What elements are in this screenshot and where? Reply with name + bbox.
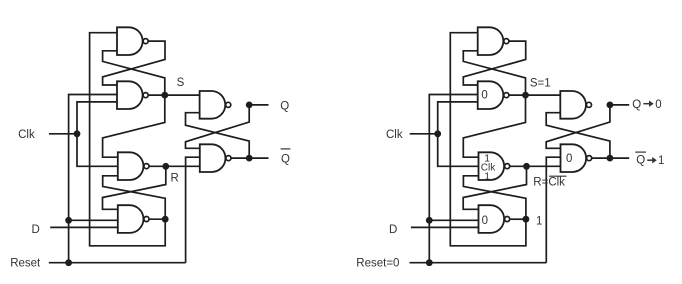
NAND gate U11 (right circuit) [560, 91, 591, 119]
wire Q-bar feedback to G5 bottom input (right circuit) [546, 113, 610, 158]
junction Q node (left circuit) [246, 101, 253, 108]
arrow in Q goes to 0 [643, 101, 653, 107]
wire G3 output node R to G6 input (left circuit) [149, 165, 199, 167]
svg-text:Q: Q [636, 155, 645, 167]
wire node R to G4 top input (left circuit) [103, 166, 166, 209]
junction Reset to G4 branch (left circuit) [65, 217, 72, 224]
wire G4 output feedback to G1 top input (right circuit) [450, 33, 526, 246]
wire node S to G3 top input (right circuit) [463, 95, 525, 157]
NAND gate U10 (right circuit) [479, 205, 510, 233]
NAND gate U3 (left circuit) [118, 152, 149, 180]
junction Reset to G4 branch (right circuit) [426, 217, 433, 224]
junction node S (left circuit) [161, 92, 168, 99]
wire Reset branch to G4 middle input (right circuit) [429, 219, 478, 221]
svg-text:0: 0 [481, 89, 487, 101]
NAND gate U1 (left circuit) [117, 27, 148, 55]
svg-text:1: 1 [658, 155, 664, 167]
wire G4 output feedback to G1 top input (left circuit) [90, 33, 166, 246]
svg-text:D: D [389, 224, 397, 236]
junction node S (right circuit) [522, 92, 529, 99]
wire node S feedback to G1 bottom input (left circuit) [103, 51, 165, 95]
arrow in Q-bar goes to 1 [647, 157, 657, 163]
junction Clk tap (right circuit) [434, 130, 441, 137]
junction Clk tap (left circuit) [74, 130, 81, 137]
wire Clk input lead (left circuit) [49, 133, 77, 135]
wire D input to G4 (left circuit) [50, 226, 118, 228]
junction Q-bar node (left circuit) [246, 155, 253, 162]
wire Reset riser to G6 middle input (left circuit) [186, 157, 200, 263]
svg-text:0: 0 [655, 99, 661, 111]
svg-text:R: R [171, 173, 179, 185]
NAND gate U9 (right circuit) [479, 152, 510, 180]
NAND gate U4 (left circuit) [118, 205, 149, 233]
wire Clk to G2 and G3 inputs (right circuit) [438, 102, 479, 166]
wire Q-bar output lead (left circuit) [231, 157, 268, 159]
wire node S to G3 top input (left circuit) [103, 95, 165, 157]
svg-text:0: 0 [566, 153, 572, 165]
wire Q feedback to G6 top input (right circuit) [546, 105, 610, 148]
svg-text:Reset=0: Reset=0 [356, 257, 399, 269]
wire Reset riser to G6 middle input (right circuit) [546, 157, 560, 263]
svg-text:Clk: Clk [386, 129, 403, 141]
overbar on Clk in R=Clk label [549, 175, 567, 177]
wire Q-bar output lead (right circuit) [592, 157, 629, 159]
svg-text:D: D [32, 224, 40, 236]
junction Q node (right circuit) [607, 101, 614, 108]
wire G2 output node S to G5 input (left circuit) [149, 94, 200, 96]
NAND gate U2 (left circuit) [117, 81, 148, 109]
wire G1 output to G2 top input (left circuit) [103, 41, 165, 85]
junction G4 output (left circuit) [162, 216, 169, 223]
svg-text:Q: Q [281, 153, 290, 165]
svg-text:R=Clk: R=Clk [533, 177, 565, 189]
wire D input to G4 (right circuit) [411, 226, 479, 228]
junction node R (left circuit) [162, 163, 169, 170]
NAND gate U7 (right circuit) [478, 27, 509, 55]
junction Reset tap (right circuit) [426, 259, 433, 266]
NAND gate U6 (left circuit) [200, 144, 231, 172]
NAND gate U8 (right circuit) [478, 81, 509, 109]
wire G4 output feedback to G3 bottom input (left circuit) [103, 176, 166, 219]
wire G4 output stub (right circuit) [510, 218, 526, 220]
wire node R to G4 top input (right circuit) [463, 166, 526, 209]
svg-text:S: S [177, 77, 185, 89]
svg-text:1: 1 [536, 215, 542, 227]
wire Reset horizontal run (right circuit) [410, 262, 547, 264]
NAND gate U12 (right circuit) [561, 144, 592, 172]
junction Reset tap (left circuit) [65, 259, 72, 266]
junction Q-bar node (right circuit) [607, 155, 614, 162]
wire G2 output node S to G5 input (right circuit) [509, 94, 560, 96]
junction node R (right circuit) [523, 163, 530, 170]
svg-text:0: 0 [482, 215, 488, 227]
wire Q feedback to G6 top input (left circuit) [186, 105, 250, 148]
wire Q-bar feedback to G5 bottom input (left circuit) [186, 113, 250, 158]
junction G4 output (right circuit) [523, 216, 530, 223]
wire Clk to G2 and G3 inputs (left circuit) [77, 102, 118, 166]
svg-text:1: 1 [484, 171, 490, 183]
wire Reset riser to G2 middle input (right circuit) [429, 95, 477, 263]
wire G4 output feedback to G3 bottom input (right circuit) [463, 176, 526, 219]
svg-text:Reset: Reset [10, 257, 41, 269]
overbar on Q-bar label [281, 148, 291, 150]
wire Q output lead (left circuit) [249, 104, 268, 106]
wire G4 output stub (left circuit) [149, 218, 165, 220]
wire Clk input lead (right circuit) [410, 133, 438, 135]
wire Reset riser to G2 middle input (left circuit) [69, 95, 117, 263]
svg-text:S=1: S=1 [530, 77, 551, 89]
wire Reset branch to G4 middle input (left circuit) [69, 219, 118, 221]
wire G3 output node R to G6 input (right circuit) [510, 165, 560, 167]
wire G1 output to G2 top input (right circuit) [463, 41, 525, 85]
svg-text:Q: Q [632, 99, 641, 111]
svg-text:Clk: Clk [18, 129, 35, 141]
wire node S feedback to G1 bottom input (right circuit) [463, 51, 525, 95]
NAND gate U5 (left circuit) [200, 91, 231, 119]
overbar on Q in Q-bar arrow label [635, 151, 646, 153]
wire Reset horizontal run (left circuit) [49, 262, 186, 264]
svg-text:Q: Q [280, 101, 289, 113]
wire Q output lead (right circuit) [610, 104, 629, 106]
